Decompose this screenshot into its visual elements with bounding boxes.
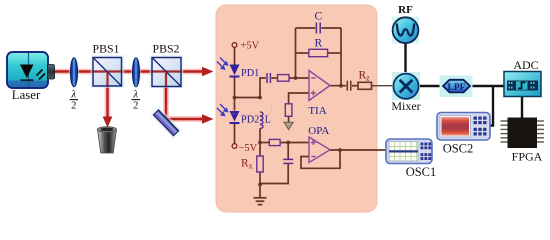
junction node OPA input — [286, 141, 290, 145]
laser head — [7, 52, 55, 88]
low pass filter LPF — [440, 76, 473, 98]
junction node TIA output — [339, 84, 343, 88]
mixer — [392, 72, 420, 100]
svg-text:−5V: −5V — [239, 143, 258, 154]
coupling capacitor (PD node to TIA) — [267, 73, 270, 83]
PBS1 cube — [91, 55, 125, 88]
svg-text:Mixer: Mixer — [391, 99, 420, 113]
FPGA chip — [501, 118, 545, 149]
junction node TIA input — [294, 76, 298, 80]
beam arrow at PD2 — [202, 114, 214, 123]
beam glow laser to PD1 — [54, 69, 208, 75]
junction node L top — [258, 96, 262, 100]
svg-text:λ: λ — [133, 90, 139, 101]
turning mirror — [150, 106, 183, 139]
svg-text:OSC2: OSC2 — [443, 142, 474, 156]
svg-text:FPGA: FPGA — [512, 150, 543, 164]
beam glow PBS1 down to dump — [105, 80, 111, 121]
svg-text:LPF: LPF — [448, 83, 466, 93]
junction node OPA output — [338, 148, 342, 152]
wire cap to resistor — [272, 77, 278, 79]
signal ground (TIA+) — [284, 122, 293, 129]
TIA output wire — [330, 85, 346, 87]
output coupling capacitor — [347, 81, 351, 91]
earth ground (bottom) — [254, 198, 267, 205]
beam arrow at PD1 — [202, 67, 214, 76]
wire mixer to LPF — [418, 85, 444, 87]
RF source — [392, 17, 419, 44]
wire node to L — [235, 97, 261, 99]
wire PD2 to -5V — [234, 124, 236, 144]
label lambda/2 first — [70, 90, 79, 112]
wire resistor to OPA input — [280, 142, 309, 144]
wire Rx top — [259, 143, 261, 157]
resistor Rz — [358, 82, 372, 89]
beam dump — [98, 127, 117, 153]
-5V terminal — [232, 144, 237, 149]
svg-text:OPA: OPA — [308, 125, 329, 137]
svg-text:TIA: TIA — [308, 105, 326, 117]
wire LPF to ADC — [468, 85, 504, 87]
shunt capacitor — [283, 159, 293, 163]
svg-text:2: 2 — [71, 101, 76, 112]
TIA feedback right vertical — [340, 28, 342, 86]
wire lower node to resistor — [260, 142, 269, 144]
TIA noninverting input wire — [289, 93, 309, 104]
svg-text:+5V: +5V — [241, 41, 260, 52]
junction node bottom rail — [258, 183, 262, 187]
PBS2 cube — [150, 55, 184, 88]
wire +5V to PD1 — [234, 48, 236, 65]
feedback R row wires — [296, 52, 309, 54]
svg-text:RF: RF — [398, 4, 413, 16]
wire output cap to Rz — [352, 85, 358, 87]
svg-text:PBS1: PBS1 — [93, 42, 120, 56]
resonance highlight dashed box — [233, 103, 272, 115]
junction node PD midpoint — [233, 96, 237, 100]
photodetector module shaded background — [216, 5, 377, 212]
resistor (L to OPA) — [269, 139, 280, 145]
oscilloscope OSC2 — [437, 113, 490, 141]
wire resistor to ground (TIA+) — [288, 116, 290, 122]
photodiode PD1 — [217, 58, 240, 77]
wire L bottom to lower node — [259, 129, 261, 144]
beam glow PBS2 down to mirror — [163, 80, 169, 119]
svg-text:Laser: Laser — [12, 88, 41, 102]
beam core laser to PD1 — [54, 70, 204, 72]
op-amp OPA — [309, 137, 330, 163]
op-amp TIA — [309, 71, 330, 101]
wire Rz to mixer — [372, 85, 394, 87]
feedback C row wires — [296, 27, 316, 29]
wire RF to mixer — [404, 42, 406, 75]
OPA output wire — [330, 149, 387, 151]
wire node down to shunt cap — [287, 143, 289, 159]
svg-text:PBS2: PBS2 — [153, 42, 180, 56]
series resistor at TIA input — [278, 75, 290, 82]
wire Rx bottom — [259, 172, 261, 186]
svg-text:R: R — [314, 38, 322, 50]
ADC block — [504, 72, 541, 97]
beam core PBS2 down — [165, 78, 167, 120]
svg-text:PD2: PD2 — [241, 115, 259, 126]
svg-text:L: L — [265, 115, 271, 126]
wire PD1 to PD2 — [234, 78, 236, 111]
wire node up to coupling cap — [260, 78, 266, 98]
svg-text:C: C — [314, 11, 322, 23]
beam arrow into dump — [103, 117, 113, 128]
wire shunt cap to bottom rail — [260, 164, 288, 184]
svg-text:λ: λ — [71, 90, 77, 101]
resistor at TIA noninverting input — [285, 104, 292, 117]
oscilloscope OSC1 — [386, 139, 432, 164]
feedback resistor R — [309, 49, 328, 56]
wire ADC to FPGA — [521, 97, 523, 118]
beam core PBS1 down — [106, 78, 108, 118]
TIA feedback left vertical — [295, 28, 297, 78]
photodiode PD2 — [217, 104, 240, 123]
junction node L bottom — [258, 141, 262, 145]
wire resistor to TIA inverting input — [289, 77, 309, 79]
wire junction down to OSC2 — [490, 86, 493, 126]
half-wave plate 2 — [131, 56, 141, 88]
label lambda/2 second — [132, 90, 141, 112]
svg-text:ADC: ADC — [513, 58, 538, 72]
feedback capacitor C — [316, 23, 320, 34]
svg-text:2: 2 — [133, 101, 138, 112]
OPA feedback loop — [301, 150, 340, 168]
inductor L — [260, 112, 263, 129]
beam glow mirror to PD2 — [167, 116, 208, 122]
half-wave plate 1 — [69, 56, 79, 88]
svg-text:OSC1: OSC1 — [406, 165, 437, 179]
beam core mirror to PD2 — [167, 118, 204, 120]
+5V terminal — [232, 43, 237, 48]
resistor Rx — [257, 156, 263, 172]
wire bottom rail to ground — [259, 185, 261, 198]
svg-text:PD1: PD1 — [241, 68, 259, 79]
